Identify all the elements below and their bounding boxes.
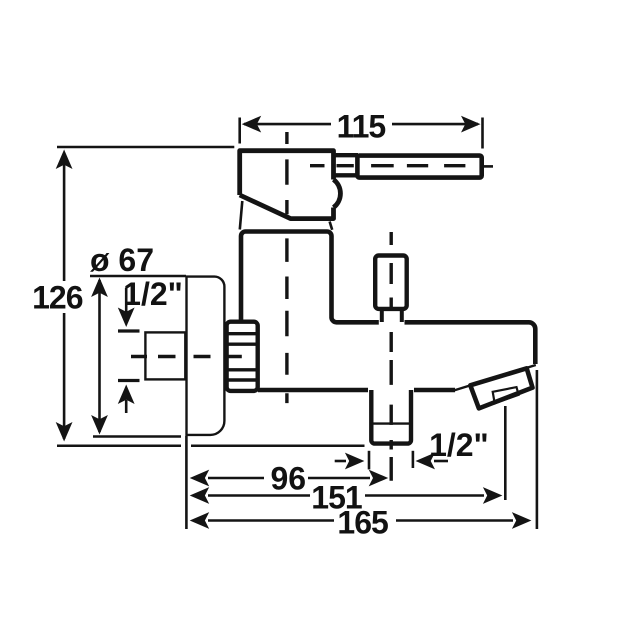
baseline wall line right (191, 445, 365, 448)
wall pipe rectangle (145, 332, 185, 379)
tick bottom of wall pipe (118, 379, 140, 382)
dim 151 arrow right (483, 487, 503, 504)
dim 165 arrow left (190, 512, 210, 529)
half-inch outlet arrow pointing left (416, 453, 436, 470)
half-inch outlet arrow pointing right (335, 460, 346, 463)
svg-text:115: 115 (337, 109, 386, 145)
dim phi67 line (98, 280, 101, 432)
aerator slot (493, 387, 519, 403)
bottom outlet (371, 390, 411, 444)
top extension line (handle top level) (57, 146, 234, 149)
dim phi67 arrow up (91, 278, 108, 298)
centerline vertical diverter and outlet (390, 232, 393, 481)
dim 115 arrow left (242, 116, 262, 133)
dim 96 arrow left (190, 470, 210, 487)
extension line aerator center (504, 406, 507, 500)
centerline vertical handle column (285, 132, 288, 403)
dim 96 line (208, 477, 264, 480)
lever neck bottom edge (334, 173, 358, 177)
svg-text:96: 96 (271, 461, 307, 497)
lever bar (357, 156, 481, 178)
dim 126 line (63, 153, 66, 281)
spout taper line (454, 365, 536, 391)
dim half-inch wall: lower leader+arrow up (118, 385, 135, 405)
extension line body right edge (536, 370, 539, 529)
outlet divider line (371, 422, 411, 424)
mounting nut (227, 322, 258, 391)
dim 115 extension line left (238, 118, 241, 144)
dim 165 arrow right (512, 512, 532, 529)
column under handle (241, 232, 535, 365)
handle body (240, 151, 341, 219)
svg-text:126: 126 (32, 280, 83, 316)
dim 96 arrow right (369, 470, 389, 487)
tick top of wall pipe (118, 329, 140, 332)
outlet tick left (368, 451, 371, 470)
dim half-inch wall: upper leader+arrow down (125, 288, 128, 314)
dim 151 line (208, 494, 310, 497)
diverter neck left edge (380, 309, 384, 322)
outlet tick right (412, 451, 415, 468)
connector taper right (330, 222, 333, 230)
dim phi67 bottom extension line (93, 435, 181, 438)
wall flange (187, 277, 225, 435)
dim 126 arrow down (56, 422, 73, 442)
dim 115 arrow right (461, 116, 481, 133)
dim 151 arrow left (190, 487, 210, 504)
body bottom edge left (258, 388, 368, 393)
centerline horizontal lever (310, 164, 466, 167)
lever neck top edge (334, 153, 358, 157)
aerator (470, 368, 532, 408)
diverter knob (375, 256, 407, 309)
centerline horizontal wall pipe (131, 355, 242, 358)
svg-text:1/2": 1/2" (429, 427, 489, 463)
dim 165 line (208, 519, 334, 522)
svg-text:165: 165 (337, 505, 388, 541)
svg-text:ø 67: ø 67 (90, 242, 154, 278)
dim 115 extension line right (481, 118, 484, 149)
extension line from wall face down (185, 436, 188, 529)
lever end pin (483, 165, 494, 168)
dim phi67 top extension line (90, 275, 186, 278)
diverter neck right edge (400, 309, 404, 322)
svg-text:1/2": 1/2" (123, 276, 183, 312)
dim 115 line (244, 123, 331, 126)
baseline wall line left (57, 445, 181, 448)
connector taper left (240, 201, 243, 230)
dim 126 arrow up (56, 150, 73, 170)
body bottom edge right (414, 388, 455, 393)
dim phi67 arrow down (91, 415, 108, 435)
